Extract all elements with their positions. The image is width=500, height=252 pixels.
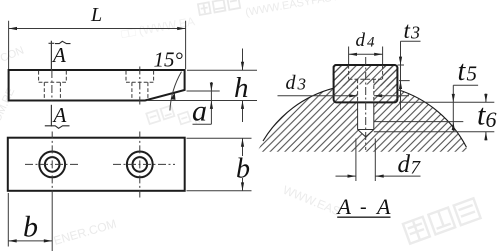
b bottom dimension line [8, 240, 52, 242]
dimension L extension lines [9, 21, 186, 69]
dome top extension line [399, 101, 494, 103]
b right dimension line [242, 138, 244, 191]
watermark center [146, 106, 174, 124]
hole2 centerline side view [139, 67, 141, 105]
block hatch [334, 65, 398, 102]
svg-text:3: 3 [297, 75, 307, 94]
hole1 outer circle [39, 152, 65, 178]
hole1 vertical centerline [51, 132, 53, 199]
d4 extension lines [349, 47, 383, 65]
dimension L line [9, 28, 186, 30]
svg-text:d: d [356, 30, 366, 51]
d7 extension lines [356, 139, 375, 182]
section cutting line bottom [50, 105, 52, 127]
watermark top center [198, 0, 240, 15]
drill point cone [358, 130, 374, 137]
t5 leader [453, 85, 478, 131]
svg-text:t: t [458, 56, 467, 87]
svg-text:7: 7 [411, 158, 422, 179]
svg-text:CON: CON [0, 44, 26, 64]
section centerline [365, 57, 367, 150]
svg-text:t: t [404, 18, 411, 43]
d4 dimension line [349, 53, 383, 55]
dome hatch [246, 64, 479, 252]
block outline section [334, 65, 398, 102]
svg-text:A: A [375, 194, 391, 219]
A-A underline [337, 216, 390, 218]
svg-text:d: d [286, 72, 297, 94]
svg-text:L: L [90, 4, 102, 26]
svg-text:ENER.COM: ENER.COM [52, 217, 118, 248]
hole1 centerline side view [51, 70, 53, 101]
angle arc arrowhead [171, 92, 176, 100]
angle dimension arc [170, 72, 182, 111]
section arrow bottom [45, 126, 70, 129]
svg-text:15°: 15° [154, 48, 184, 72]
svg-text:b: b [23, 211, 38, 244]
section cutting line top [49, 41, 55, 70]
h dimension line and arrows [242, 49, 244, 123]
b bottom extension lines [8, 193, 52, 251]
hole hidden lines section [358, 79, 374, 102]
b right extension lines [187, 138, 252, 191]
hole2 inner circle [133, 157, 148, 172]
t3 leader and arrows [398, 41, 421, 110]
d3 dimension line left [278, 95, 358, 97]
h extension line top [187, 69, 257, 71]
plate outline side view [9, 70, 185, 101]
svg-text:A: A [336, 194, 352, 219]
watermark bottom right [403, 198, 481, 243]
svg-text:-: - [360, 196, 367, 218]
d3 dimension line right [374, 95, 409, 97]
drilled hole bottom flat [358, 129, 374, 131]
svg-text:A: A [52, 103, 67, 127]
a dimension line and arrows [193, 82, 212, 124]
svg-text:4: 4 [367, 35, 375, 51]
hole2 outer circle [127, 152, 153, 178]
section arrow top [55, 41, 71, 43]
hole1 counterbore hidden lines [39, 71, 67, 100]
svg-text:□□ (WWW.EA: □□ (WWW.EA [120, 14, 196, 41]
svg-text:(WWW.EASYFAST: (WWW.EASYFAST [244, 0, 339, 19]
svg-text:WWW.EAS: WWW.EAS [281, 183, 342, 219]
svg-text:6: 6 [486, 107, 497, 132]
svg-text:3: 3 [410, 23, 420, 43]
hole depth extension line short [374, 121, 464, 123]
hole1 horizontal centerline [25, 163, 79, 165]
plate outline top view [8, 138, 185, 191]
h extension line bottom [148, 100, 257, 102]
svg-text:A: A [51, 43, 66, 67]
counterbore hidden lines section [349, 65, 383, 79]
svg-text:b: b [236, 154, 250, 185]
hole2 horizontal centerline [113, 163, 175, 165]
svg-text:5: 5 [467, 62, 478, 86]
d7 dimension line [336, 175, 421, 177]
hole bottom extension line long [374, 131, 495, 133]
hole2 counterbore hidden lines [126, 71, 154, 100]
dome arc right [397, 90, 466, 148]
hole2 vertical centerline [139, 132, 141, 198]
svg-text:a: a [192, 95, 207, 128]
dome arc left [263, 88, 334, 141]
svg-text:h: h [234, 72, 249, 104]
chamfer extension line [187, 90, 220, 92]
hole1 inner circle [45, 157, 60, 172]
dimension L arrows [9, 27, 17, 30]
t6 dimension arrows [485, 94, 487, 141]
drilled hole walls [358, 102, 374, 129]
svg-text:d: d [398, 151, 411, 178]
